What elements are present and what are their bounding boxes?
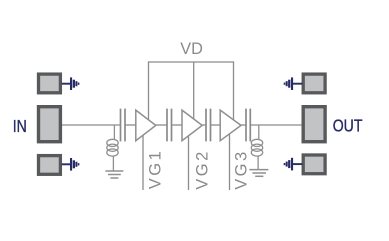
capacitor C3 bbox=[206, 109, 211, 142]
svg-text:VG1: VG1 bbox=[146, 151, 164, 189]
ground stub (blue) at P2 bbox=[62, 158, 80, 171]
capacitor C1 bbox=[121, 109, 126, 142]
capacitor C4 bbox=[246, 109, 250, 142]
svg-text:VG3: VG3 bbox=[232, 152, 250, 190]
op-amp U2 bbox=[182, 110, 202, 141]
svg-text:IN: IN bbox=[13, 118, 27, 137]
wire C1 to U1 bbox=[125, 124, 136, 126]
inductor L2 bbox=[251, 125, 262, 169]
svg-text:VD: VD bbox=[180, 40, 203, 58]
port pad P3 (top-right square) bbox=[303, 74, 325, 93]
wire VG1 stub bbox=[142, 136, 144, 191]
wire U1 to C2 bbox=[156, 124, 167, 126]
wire VD rail bbox=[149, 61, 234, 63]
port IN pad bbox=[39, 107, 61, 142]
wire VD riser to U1 bbox=[148, 61, 150, 120]
ground stub (blue) at P4 bbox=[284, 158, 303, 171]
port pad P2 (bottom-left square) bbox=[39, 156, 61, 175]
wire IN to L1 junction and C1 bbox=[62, 124, 121, 126]
svg-text:OUT: OUT bbox=[333, 117, 363, 136]
capacitor C2 bbox=[167, 109, 172, 142]
ground GND2 bbox=[249, 170, 268, 177]
op-amp U1 bbox=[136, 110, 156, 141]
op-amp U3 bbox=[220, 110, 241, 141]
wire U3 to C4 bbox=[241, 124, 246, 126]
wire C2 to U2 bbox=[172, 124, 183, 126]
svg-text:VG2: VG2 bbox=[193, 152, 211, 190]
ground stub (blue) at P3 bbox=[284, 77, 303, 90]
inductor L1 bbox=[107, 125, 118, 171]
wire VG3 stub bbox=[229, 135, 231, 191]
wire VG2 stub bbox=[188, 136, 190, 190]
port OUT pad bbox=[303, 107, 325, 142]
port pad P1 (top-left square) bbox=[39, 74, 61, 93]
wire VD riser to U2 bbox=[193, 62, 195, 119]
wire U2 to C3 bbox=[203, 124, 207, 126]
ground stub (blue) at P1 bbox=[62, 77, 80, 90]
wire VD riser to U3 bbox=[233, 61, 235, 120]
wire C4 to OUT bbox=[250, 124, 302, 126]
port pad P4 (bottom-right square) bbox=[303, 155, 325, 174]
ground GND1 bbox=[105, 171, 123, 178]
wire C3 to U3 bbox=[211, 124, 221, 126]
